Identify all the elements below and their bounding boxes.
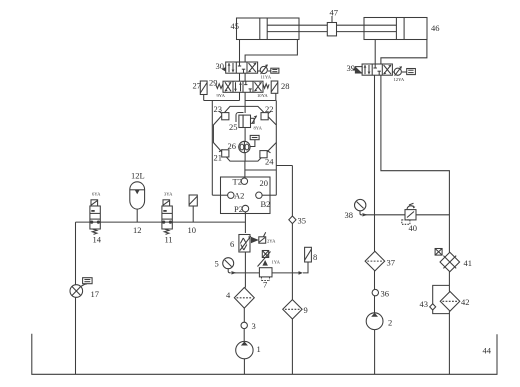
svg-text:6YA: 6YA bbox=[92, 191, 101, 196]
svg-text:42: 42 bbox=[461, 297, 470, 307]
svg-text:20: 20 bbox=[260, 178, 269, 188]
svg-text:17: 17 bbox=[91, 289, 100, 299]
svg-text:9: 9 bbox=[304, 305, 308, 315]
svg-text:12YA: 12YA bbox=[394, 77, 405, 82]
svg-text:7: 7 bbox=[263, 280, 267, 290]
svg-text:10: 10 bbox=[188, 225, 197, 235]
svg-text:P2: P2 bbox=[234, 204, 243, 214]
svg-text:1: 1 bbox=[257, 344, 261, 354]
svg-text:1YA: 1YA bbox=[272, 260, 281, 265]
svg-text:6: 6 bbox=[230, 239, 234, 249]
svg-text:11: 11 bbox=[165, 235, 173, 245]
svg-text:25: 25 bbox=[229, 122, 238, 132]
svg-text:43: 43 bbox=[420, 299, 429, 309]
svg-text:47: 47 bbox=[330, 7, 339, 17]
svg-text:2YA: 2YA bbox=[267, 239, 276, 244]
svg-text:8YA: 8YA bbox=[254, 126, 263, 131]
svg-text:40: 40 bbox=[409, 223, 418, 233]
svg-text:9YA: 9YA bbox=[217, 93, 226, 98]
svg-text:45: 45 bbox=[231, 21, 240, 31]
svg-text:28: 28 bbox=[281, 81, 290, 91]
svg-text:T2: T2 bbox=[233, 177, 242, 187]
svg-text:3YA: 3YA bbox=[164, 191, 173, 196]
svg-text:23: 23 bbox=[214, 104, 223, 114]
svg-text:22: 22 bbox=[265, 104, 274, 114]
svg-text:29: 29 bbox=[209, 78, 218, 88]
svg-text:36: 36 bbox=[381, 289, 390, 299]
svg-text:37: 37 bbox=[387, 258, 396, 268]
svg-text:26: 26 bbox=[228, 141, 237, 151]
svg-text:3: 3 bbox=[252, 321, 256, 331]
svg-text:39: 39 bbox=[347, 63, 356, 73]
svg-text:21: 21 bbox=[214, 153, 223, 163]
svg-text:38: 38 bbox=[345, 210, 354, 220]
svg-text:12: 12 bbox=[133, 225, 142, 235]
svg-text:14: 14 bbox=[93, 235, 102, 245]
svg-text:4: 4 bbox=[226, 290, 231, 300]
svg-text:B2: B2 bbox=[261, 199, 271, 209]
svg-text:10YA: 10YA bbox=[257, 93, 268, 98]
svg-text:8: 8 bbox=[313, 252, 317, 262]
svg-text:41: 41 bbox=[464, 258, 473, 268]
svg-text:35: 35 bbox=[298, 216, 307, 226]
svg-text:44: 44 bbox=[483, 346, 492, 356]
svg-text:5: 5 bbox=[215, 259, 219, 269]
svg-text:12L: 12L bbox=[131, 171, 145, 181]
svg-text:11YA: 11YA bbox=[261, 75, 272, 80]
svg-text:A2: A2 bbox=[234, 191, 244, 201]
svg-text:2: 2 bbox=[388, 318, 392, 328]
svg-text:24: 24 bbox=[265, 157, 274, 167]
svg-text:46: 46 bbox=[431, 23, 440, 33]
svg-text:30: 30 bbox=[216, 61, 225, 71]
svg-text:27: 27 bbox=[193, 81, 202, 91]
